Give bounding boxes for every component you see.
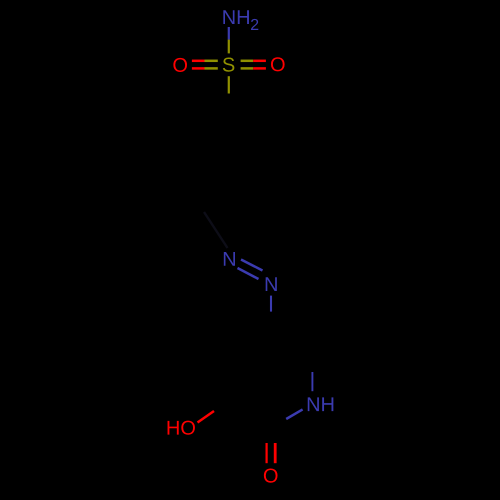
double bond S=O left, lower line <box>192 67 205 70</box>
bond N(H2)-S sulfur half <box>228 40 230 54</box>
double bond S=O right, lower line <box>241 67 254 70</box>
bond S-C1 sulfur half <box>228 76 230 93</box>
bond C4'-N1'(ring NH) nitrogen half <box>311 372 313 391</box>
label HO <box>168 421 195 435</box>
pyridinone ring carbon bonds (black on black) <box>214 328 312 429</box>
double bond C2'=O oxygen halves <box>266 443 268 463</box>
double bond S=O right, upper line <box>241 60 254 63</box>
bond O(H)-C5' oxygen half <box>198 411 215 423</box>
bond N(H2)-S nitrogen half <box>228 27 230 40</box>
label NH2 subscript 2 <box>251 19 258 30</box>
bond C2'-N1'(ring NH) nitrogen half <box>286 409 302 419</box>
double bond N1=N2 azo, lower line <box>238 268 259 279</box>
bond N2(azo)-C3' nitrogen half <box>270 296 272 312</box>
label O carbonyl <box>264 469 278 483</box>
bond N2(azo)-C3' carbon half <box>270 312 273 328</box>
double bond N1=N2 azo, upper line <box>241 260 263 271</box>
label NH ring <box>308 397 334 411</box>
bond C2'=O carbon halves (black on black) <box>265 429 268 443</box>
label O left <box>173 58 187 72</box>
label N1 azo <box>224 252 235 266</box>
label O right <box>271 57 285 71</box>
label NH2 part NH <box>223 10 249 24</box>
double bond S=O left, upper line <box>192 60 205 63</box>
wire bond S-C1 carbon half <box>228 94 231 116</box>
bond C4(ring)-N1(azo) faint <box>204 212 228 248</box>
benzene ring C1-C6 (carbon bonds, black on black) <box>165 115 266 217</box>
label N2 azo <box>266 277 277 291</box>
label S <box>223 58 235 72</box>
